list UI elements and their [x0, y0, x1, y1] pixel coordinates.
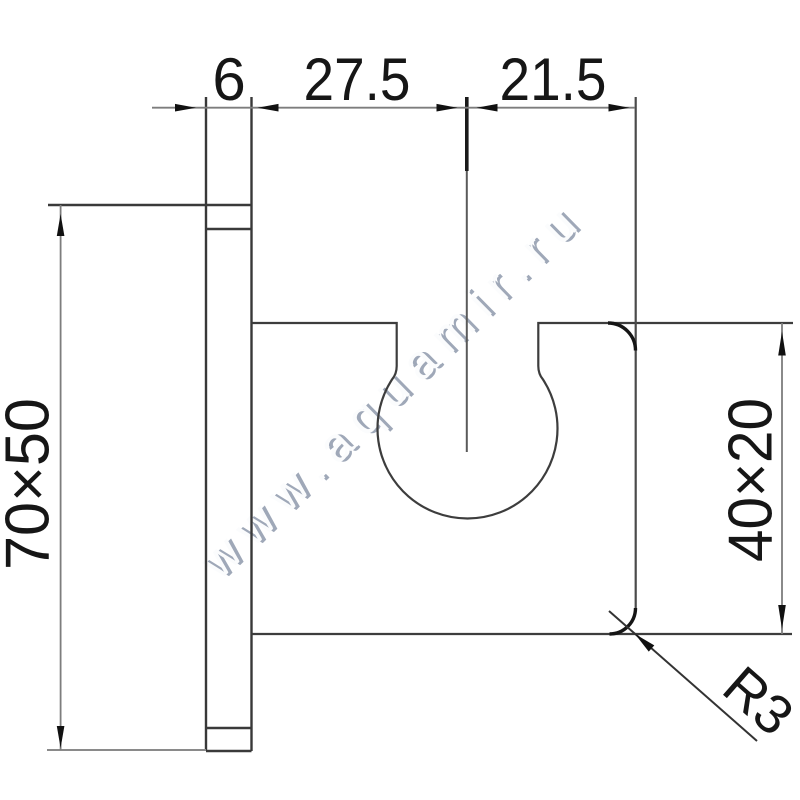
svg-text:40×20: 40×20	[716, 398, 785, 562]
bottom extension line left	[47, 749, 206, 751]
arrow down at bottom of left dimension	[57, 726, 65, 748]
arrow left-pointing at 257.5	[258, 104, 279, 112]
arrow right-pointing at 629.5	[609, 104, 630, 112]
arrow up at top of left dimension	[57, 214, 65, 236]
leader arrowhead	[632, 631, 654, 652]
plate upper inner line	[206, 228, 252, 230]
leader line for R3	[609, 611, 757, 741]
label 40x20	[716, 398, 785, 562]
centerline thin lower part	[466, 171, 468, 452]
label 70x50	[0, 398, 62, 570]
watermark www.aquamir.ru	[190, 187, 600, 592]
arrow down at bottom of right dimension	[778, 605, 786, 629]
top dimension line	[152, 107, 635, 109]
plate left edge	[205, 97, 207, 751]
plate right edge	[250, 97, 252, 751]
arrow right-pointing at 196	[175, 104, 196, 112]
svg-text:27.5: 27.5	[304, 46, 411, 113]
label R3	[712, 654, 800, 747]
left dimension line 70x50	[60, 205, 62, 750]
plate top edge with left extension line	[48, 204, 252, 206]
plate bottom edge	[206, 750, 252, 752]
arrow left-pointing at 476.5	[477, 104, 498, 112]
body bottom edge with right extension	[252, 633, 793, 635]
centerline thick upper part	[465, 97, 469, 171]
body right edge with top extension	[635, 97, 637, 611]
right dimension line 40x20	[781, 323, 783, 634]
body outline with keyhole slot	[252, 323, 794, 518]
corner radius R3 top right	[608, 323, 636, 351]
arrow up at top of right dimension	[778, 332, 786, 356]
arrow right-pointing at 457.5	[437, 104, 458, 112]
svg-text:6: 6	[212, 46, 245, 113]
svg-text:70×50: 70×50	[0, 398, 62, 570]
corner radius R3 bottom right	[610, 608, 636, 634]
plate lower inner line	[206, 727, 252, 729]
svg-text:21.5: 21.5	[500, 46, 607, 113]
